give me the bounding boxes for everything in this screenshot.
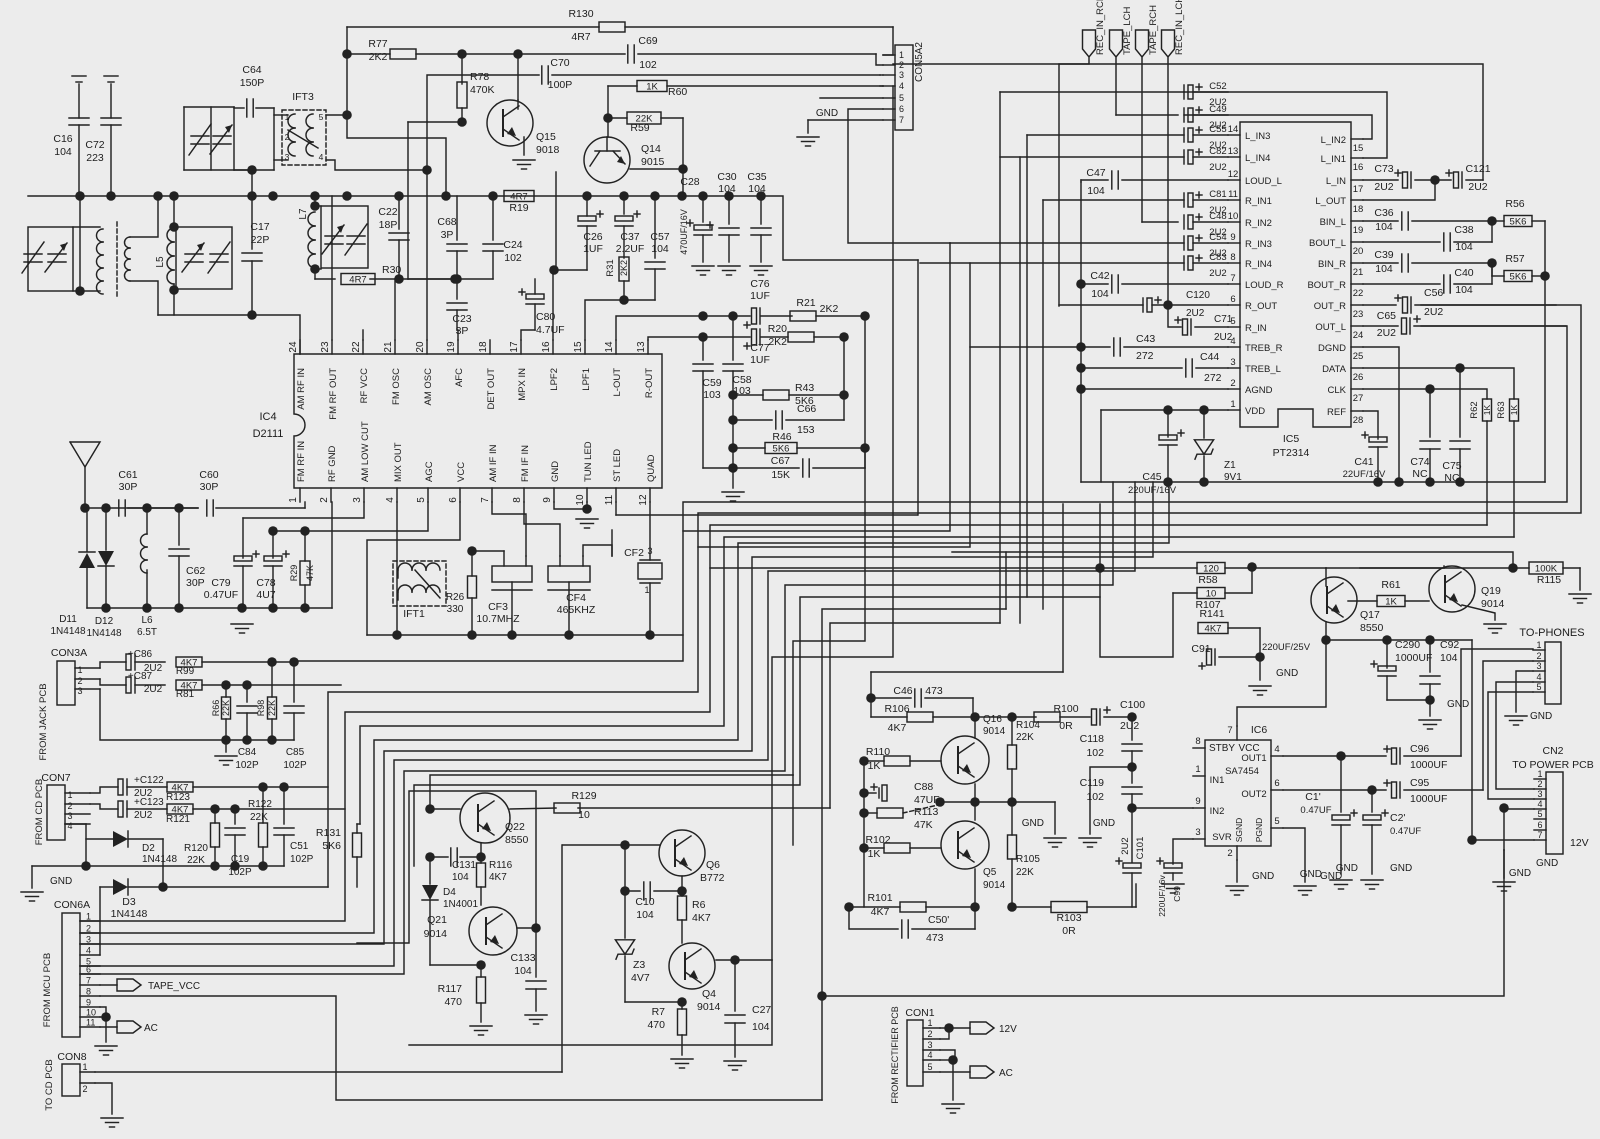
resistor R61 xyxy=(1348,579,1429,608)
wire: con5 p1 xyxy=(883,27,893,55)
capacitor C64 xyxy=(234,64,274,117)
svg-text:GND: GND xyxy=(1536,858,1558,869)
junction xyxy=(169,191,179,201)
svg-text:4: 4 xyxy=(1537,799,1542,809)
ground xyxy=(1505,711,1552,725)
svg-text:5K6: 5K6 xyxy=(322,840,341,852)
svg-text:2: 2 xyxy=(67,801,72,811)
svg-text:4.7UF: 4.7UF xyxy=(536,324,565,336)
wire: Q17 collector rail xyxy=(1326,622,1472,640)
svg-text:C69: C69 xyxy=(638,35,657,47)
ground xyxy=(1484,624,1506,633)
wire: Q4 collector xyxy=(716,959,772,961)
junction xyxy=(507,630,517,640)
wire xyxy=(1544,221,1546,482)
svg-text:FM IF IN: FM IF IN xyxy=(520,445,531,482)
svg-text:C71: C71 xyxy=(1214,314,1233,325)
wire bundle vertical xyxy=(999,92,1001,623)
svg-text:1: 1 xyxy=(1230,399,1235,410)
svg-text:22K: 22K xyxy=(221,700,231,716)
junction xyxy=(698,191,708,201)
capacitor C70 xyxy=(427,57,880,170)
junction xyxy=(724,191,734,201)
wire bundle vertical xyxy=(917,260,919,515)
wire xyxy=(940,1071,970,1073)
wire xyxy=(1116,114,1178,116)
svg-text:5: 5 xyxy=(319,112,324,122)
wire: pin22 xyxy=(362,330,364,340)
capacitor C52 xyxy=(1184,81,1228,108)
junction xyxy=(268,526,278,536)
wire: ST LED run xyxy=(616,514,917,516)
junction xyxy=(230,804,240,814)
svg-text:R66: R66 xyxy=(211,700,221,717)
wire: AGC net xyxy=(273,502,428,531)
svg-text:3: 3 xyxy=(1230,357,1235,368)
junction xyxy=(564,630,574,640)
wire xyxy=(893,64,1483,180)
junction xyxy=(619,191,629,201)
resistor R103 xyxy=(1012,902,1136,938)
wire: OUT2 xyxy=(1283,789,1386,791)
junction xyxy=(476,960,486,970)
svg-text:IN1: IN1 xyxy=(1210,775,1225,786)
junction xyxy=(728,311,738,321)
svg-text:8: 8 xyxy=(86,987,91,997)
svg-text:Z1: Z1 xyxy=(1224,460,1236,471)
svg-text:9014: 9014 xyxy=(1481,598,1505,610)
svg-text:1000UF: 1000UF xyxy=(1410,793,1447,805)
junction xyxy=(1499,803,1509,813)
wire xyxy=(583,545,612,556)
wire: pin13 xyxy=(648,337,703,340)
wire: C54 line xyxy=(950,242,1184,244)
ground xyxy=(513,160,535,169)
svg-text:R116: R116 xyxy=(489,860,513,871)
svg-text:L_IN3: L_IN3 xyxy=(1245,131,1270,142)
svg-text:C45: C45 xyxy=(1142,471,1161,483)
junction xyxy=(450,274,460,284)
svg-text:6.5T: 6.5T xyxy=(137,627,157,638)
junction xyxy=(230,861,240,871)
zener Z1 xyxy=(1194,410,1242,483)
svg-text:L_IN4: L_IN4 xyxy=(1245,153,1270,164)
junction xyxy=(1076,363,1086,373)
resistor R107 xyxy=(1173,588,1252,612)
wire xyxy=(1225,567,1326,569)
junction xyxy=(645,630,655,640)
resistor R116 xyxy=(477,843,513,905)
svg-text:4: 4 xyxy=(319,152,324,162)
wire xyxy=(952,552,1513,568)
ground xyxy=(1022,818,1066,847)
svg-text:6: 6 xyxy=(1274,778,1279,789)
svg-text:104: 104 xyxy=(752,1021,770,1033)
wire: bottom bus xyxy=(87,607,332,609)
wire: Q14 emitter xyxy=(555,172,557,268)
svg-text:R106: R106 xyxy=(884,703,909,715)
svg-text:BOUT_R: BOUT_R xyxy=(1307,280,1346,291)
svg-text:9014: 9014 xyxy=(697,1001,721,1013)
resistor R123 xyxy=(166,782,328,803)
svg-text:18: 18 xyxy=(1353,204,1364,215)
svg-text:GND: GND xyxy=(1447,699,1469,710)
junction xyxy=(1487,216,1497,226)
svg-text:5K6: 5K6 xyxy=(773,444,790,455)
junction xyxy=(1095,563,1105,573)
junction xyxy=(101,503,111,513)
svg-text:6: 6 xyxy=(448,497,459,503)
svg-text:TAPE_RCH: TAPE_RCH xyxy=(1148,5,1159,55)
wire: pin4 to D3 xyxy=(99,887,101,955)
svg-text:13: 13 xyxy=(1228,146,1239,157)
svg-text:Q19: Q19 xyxy=(1481,585,1501,597)
wire: DATA xyxy=(1363,368,1514,399)
resistor R106 xyxy=(871,703,1036,734)
svg-text:47K: 47K xyxy=(305,565,315,581)
wire xyxy=(95,1083,112,1114)
capacitor C59 xyxy=(693,337,722,468)
svg-text:R61: R61 xyxy=(1381,579,1400,591)
svg-text:1N4148: 1N4148 xyxy=(111,908,148,920)
svg-text:C59: C59 xyxy=(702,377,721,389)
junction xyxy=(1394,477,1404,487)
wire: L_OUT xyxy=(1363,180,1435,200)
svg-text:D2: D2 xyxy=(142,843,155,854)
resistor R57 xyxy=(1492,253,1545,283)
wire xyxy=(1100,568,1173,657)
svg-text:AM RF IN: AM RF IN xyxy=(296,368,307,410)
svg-text:2U2: 2U2 xyxy=(1209,268,1226,279)
junction xyxy=(452,274,462,284)
svg-text:28: 28 xyxy=(1353,415,1364,426)
svg-text:R115: R115 xyxy=(1537,574,1561,586)
svg-text:12: 12 xyxy=(1228,169,1239,180)
wire xyxy=(556,269,587,271)
junction xyxy=(106,191,116,201)
svg-text:R26: R26 xyxy=(446,592,465,603)
junction xyxy=(1199,477,1209,487)
svg-text:FM RF IN: FM RF IN xyxy=(296,441,307,482)
net flag REC_IN_RCH xyxy=(1083,0,1107,57)
resistor R78 xyxy=(457,71,495,122)
svg-text:C28: C28 xyxy=(680,176,699,188)
resistor R43 xyxy=(733,382,844,407)
capacitor C72 xyxy=(85,76,121,196)
svg-text:C38: C38 xyxy=(1454,224,1473,236)
svg-text:C24: C24 xyxy=(503,239,522,251)
svg-text:R141: R141 xyxy=(1199,608,1224,620)
capacitor C85 xyxy=(283,662,307,771)
svg-text:10: 10 xyxy=(86,1008,96,1018)
wire xyxy=(408,121,462,123)
junction xyxy=(531,923,541,933)
svg-text:R7: R7 xyxy=(652,1006,666,1018)
wire: emitter row xyxy=(938,801,1055,803)
svg-text:4K7: 4K7 xyxy=(489,872,507,883)
svg-text:9014: 9014 xyxy=(983,880,1006,891)
svg-text:25: 25 xyxy=(1353,351,1364,362)
junction xyxy=(310,264,320,274)
svg-text:TREB_L: TREB_L xyxy=(1245,364,1281,375)
variable capacitor (FM front end) xyxy=(184,107,274,170)
junction xyxy=(839,390,849,400)
svg-text:GND: GND xyxy=(1509,868,1531,879)
junction xyxy=(210,861,220,871)
inductor L5 xyxy=(155,196,174,290)
junction xyxy=(549,265,559,275)
capacitor C10 xyxy=(625,882,682,921)
wire: con5 p2 xyxy=(876,54,883,65)
svg-text:4R7: 4R7 xyxy=(571,31,590,43)
svg-text:47K: 47K xyxy=(914,819,933,831)
svg-text:C68: C68 xyxy=(437,216,456,228)
junction xyxy=(677,997,687,1007)
svg-text:C46: C46 xyxy=(893,685,912,697)
ground xyxy=(1294,871,1342,895)
svg-text:R99: R99 xyxy=(176,666,195,677)
svg-text:12: 12 xyxy=(638,494,649,506)
junction xyxy=(1007,797,1017,807)
svg-text:IC5: IC5 xyxy=(1283,433,1300,445)
svg-text:10: 10 xyxy=(1206,589,1217,600)
wire: CON8 pin1 run xyxy=(95,1071,562,1073)
svg-text:6: 6 xyxy=(86,965,91,975)
capacitor C43 xyxy=(970,333,1228,362)
wire xyxy=(100,689,294,740)
junction xyxy=(1336,751,1346,761)
wire xyxy=(346,27,348,54)
svg-text:2U2: 2U2 xyxy=(1468,181,1487,193)
capacitor C96 xyxy=(1384,649,1533,771)
ground xyxy=(750,266,772,275)
svg-text:11: 11 xyxy=(604,494,615,505)
svg-text:1: 1 xyxy=(927,1018,932,1028)
wire xyxy=(1080,182,1082,482)
svg-text:2U2: 2U2 xyxy=(1120,720,1139,732)
junction xyxy=(457,49,467,59)
junction xyxy=(1247,562,1257,572)
svg-text:Q5: Q5 xyxy=(983,867,997,878)
junction xyxy=(210,804,220,814)
wire: 12V xyxy=(1472,640,1589,849)
wire bundle xyxy=(80,482,1169,933)
connector CN2 xyxy=(1512,745,1593,854)
svg-text:102: 102 xyxy=(1086,747,1104,759)
svg-text:C121: C121 xyxy=(1465,163,1490,175)
svg-text:R78: R78 xyxy=(470,71,489,83)
capacitor C55 xyxy=(1184,124,1228,151)
junction xyxy=(258,861,268,871)
resistor R129 xyxy=(510,790,830,821)
wire xyxy=(1488,692,1534,799)
wire xyxy=(1090,767,1132,834)
resistor R63 xyxy=(1496,399,1519,537)
wire: C81 line xyxy=(1043,199,1184,201)
svg-text:2U2: 2U2 xyxy=(1374,181,1393,193)
junction xyxy=(1425,635,1435,645)
junction xyxy=(300,526,310,536)
resistor R58 xyxy=(710,563,1225,587)
svg-text:1: 1 xyxy=(644,585,649,595)
ground xyxy=(1300,869,1352,889)
junction xyxy=(756,191,766,201)
svg-text:6: 6 xyxy=(1230,294,1235,305)
junction xyxy=(81,861,91,871)
svg-text:0.47UF: 0.47UF xyxy=(1300,805,1331,816)
svg-text:17: 17 xyxy=(509,341,520,353)
svg-text:11: 11 xyxy=(1228,189,1238,200)
capacitor C92 xyxy=(1420,639,1459,700)
svg-text:14: 14 xyxy=(1228,124,1239,135)
resistor R99 xyxy=(176,657,294,677)
svg-text:C42: C42 xyxy=(1090,270,1109,282)
svg-text:23: 23 xyxy=(320,341,331,353)
junction xyxy=(75,191,85,201)
capacitor C71 xyxy=(1168,305,1233,343)
capacitor C61 xyxy=(118,469,137,516)
resistor R104 xyxy=(1008,717,1041,802)
capacitor C83 xyxy=(1184,252,1228,279)
svg-text:12V: 12V xyxy=(999,1024,1017,1035)
junction xyxy=(1382,635,1392,645)
svg-text:3: 3 xyxy=(86,935,91,945)
svg-text:2U2: 2U2 xyxy=(1120,837,1131,854)
wire: con5 p4 xyxy=(880,85,883,87)
svg-text:C101: C101 xyxy=(1135,837,1146,860)
svg-text:GND: GND xyxy=(1300,869,1322,880)
transistor Q5 xyxy=(941,821,1006,891)
svg-text:C52: C52 xyxy=(1209,81,1226,92)
junction xyxy=(1199,405,1209,415)
junction xyxy=(1076,384,1086,394)
svg-text:TAPE_VCC: TAPE_VCC xyxy=(148,981,200,992)
capacitor C118 xyxy=(1080,717,1142,767)
wire: 12V rail xyxy=(822,850,1504,1100)
wire bundle: DATA net xyxy=(360,537,1514,824)
wire: pin20 xyxy=(426,170,428,340)
junction xyxy=(1076,279,1086,289)
capacitor C77 xyxy=(703,329,788,366)
svg-text:STBY: STBY xyxy=(1209,743,1235,754)
svg-text:QUAD: QUAD xyxy=(646,454,657,482)
svg-text:R62: R62 xyxy=(1469,401,1480,418)
capacitor C60 xyxy=(199,469,305,516)
svg-text:FROM RECTIFIER PCB: FROM RECTIFIER PCB xyxy=(890,1006,900,1104)
svg-text:VDD: VDD xyxy=(1245,406,1265,417)
wire bundle vertical xyxy=(772,86,893,960)
wire: 568 rail xyxy=(1326,567,1513,569)
svg-text:470: 470 xyxy=(444,996,462,1008)
wire: pin8 net xyxy=(524,502,560,556)
svg-text:4V7: 4V7 xyxy=(631,972,650,984)
svg-text:17: 17 xyxy=(1353,184,1364,195)
svg-text:7: 7 xyxy=(480,497,491,503)
capacitor C131 xyxy=(430,848,481,883)
wire xyxy=(611,530,613,556)
ground xyxy=(101,1118,123,1127)
connector CON6A xyxy=(42,899,100,1037)
wire: VCC feed xyxy=(1237,640,1326,726)
svg-text:1: 1 xyxy=(1536,640,1541,650)
svg-text:1: 1 xyxy=(86,912,91,922)
wire: AGND xyxy=(1081,388,1228,390)
resistor R62 xyxy=(1469,399,1492,525)
wire: IF bus xyxy=(367,634,683,636)
svg-text:R46: R46 xyxy=(772,431,791,443)
wire: pin2 RF GND xyxy=(331,502,333,608)
junction xyxy=(866,693,876,703)
junction xyxy=(247,191,257,201)
capacitor C84 xyxy=(235,685,259,771)
svg-text:OUT2: OUT2 xyxy=(1241,789,1266,800)
svg-text:30P: 30P xyxy=(119,481,138,493)
wire xyxy=(586,196,588,216)
svg-text:2: 2 xyxy=(927,1029,932,1039)
wire bundle xyxy=(80,482,1135,966)
wire bundle: C65 net xyxy=(294,326,1567,661)
svg-text:4: 4 xyxy=(899,81,904,91)
svg-text:C118: C118 xyxy=(1080,733,1104,745)
svg-text:L_IN1: L_IN1 xyxy=(1321,154,1346,165)
wire: pin4 xyxy=(396,502,398,635)
junction xyxy=(467,630,477,640)
svg-text:R-OUT: R-OUT xyxy=(644,368,655,398)
junction xyxy=(142,603,152,613)
wire: L_IN1 net xyxy=(1184,92,1387,158)
junction xyxy=(1508,563,1518,573)
svg-text:C22: C22 xyxy=(378,206,397,218)
wire xyxy=(1115,58,1117,115)
svg-text:104: 104 xyxy=(1087,185,1105,197)
svg-text:1K: 1K xyxy=(1482,404,1492,415)
svg-text:22P: 22P xyxy=(251,234,270,246)
svg-text:R59: R59 xyxy=(630,122,649,134)
ground xyxy=(1569,594,1591,603)
junction xyxy=(221,680,231,690)
svg-text:C55: C55 xyxy=(1209,124,1226,135)
svg-text:C54: C54 xyxy=(1209,232,1226,243)
capacitor C45 xyxy=(1128,410,1184,496)
wire xyxy=(952,1060,954,1100)
ground xyxy=(1336,863,1412,889)
ground xyxy=(21,866,72,901)
svg-text:470K: 470K xyxy=(470,84,495,96)
svg-text:C35: C35 xyxy=(747,171,766,183)
junction xyxy=(422,165,432,175)
connector CON5A2 xyxy=(883,42,925,130)
svg-text:8: 8 xyxy=(1230,252,1235,263)
junction xyxy=(488,191,498,201)
svg-text:2U2: 2U2 xyxy=(1214,332,1233,343)
svg-text:7: 7 xyxy=(86,976,91,986)
capacitor C88 xyxy=(864,781,940,806)
wire xyxy=(517,54,519,100)
svg-text:CN2: CN2 xyxy=(1542,745,1563,757)
capacitor C28 xyxy=(679,176,713,262)
svg-text:3: 3 xyxy=(927,1040,932,1050)
capacitor C36 xyxy=(1363,207,1492,233)
wire: gnd bus xyxy=(1081,481,1545,483)
svg-text:8: 8 xyxy=(512,497,523,503)
ground xyxy=(942,1104,964,1113)
svg-text:BOUT_L: BOUT_L xyxy=(1309,238,1346,249)
junction xyxy=(258,782,268,792)
svg-text:3: 3 xyxy=(1195,827,1200,838)
resistor R30 xyxy=(315,264,455,286)
capacitor C133 xyxy=(510,928,546,1011)
svg-text:2K2: 2K2 xyxy=(619,260,629,276)
